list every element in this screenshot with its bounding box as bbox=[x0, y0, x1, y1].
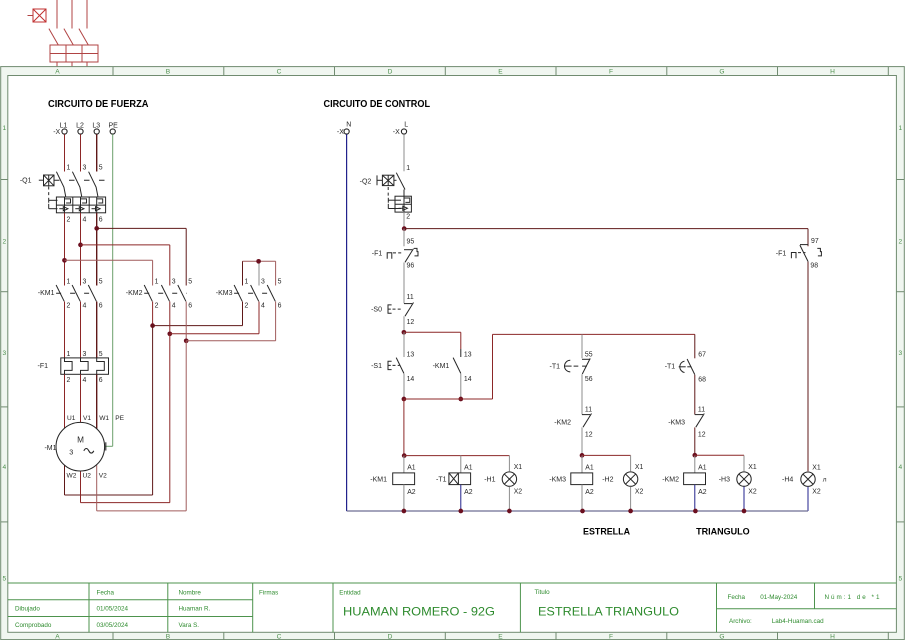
interlock contact KM2 11-12 bbox=[554, 407, 592, 439]
node KM2-KM3 link3 bbox=[184, 338, 189, 343]
svg-text:-S1: -S1 bbox=[371, 363, 382, 370]
svg-text:11: 11 bbox=[407, 294, 414, 301]
svg-text:3: 3 bbox=[83, 165, 87, 172]
node L3 branch bbox=[94, 226, 99, 231]
svg-text:-KM2: -KM2 bbox=[554, 420, 571, 427]
svg-text:C: C bbox=[277, 633, 282, 640]
svg-text:5: 5 bbox=[2, 575, 6, 582]
svg-text:2: 2 bbox=[2, 238, 6, 245]
node KM2-KM3 link2 bbox=[167, 331, 172, 336]
svg-text:-KM3: -KM3 bbox=[549, 477, 566, 484]
node N KM2 bbox=[693, 509, 698, 514]
wire node B to coils bbox=[403, 399, 405, 456]
node N H2 bbox=[628, 509, 633, 514]
node S1 14 bbox=[402, 397, 407, 402]
wire branch to KM2 pole5 bbox=[97, 227, 187, 229]
wire F1 to motor W1 bbox=[96, 374, 98, 431]
timed contact T1 67-68 bbox=[665, 352, 706, 384]
svg-text:95: 95 bbox=[407, 238, 415, 245]
svg-text:97: 97 bbox=[811, 238, 819, 245]
wire PE drop bbox=[112, 134, 114, 446]
svg-text:-KM1: -KM1 bbox=[433, 363, 450, 370]
wire Q1 to KM1 pole3 bbox=[96, 213, 98, 286]
wire rail B corner to T1 67 bbox=[694, 334, 696, 358]
wire F1 to motor V1 bbox=[80, 374, 82, 422]
svg-text:U1: U1 bbox=[67, 415, 76, 422]
wire S1 14 down bbox=[403, 374, 405, 399]
svg-text:-KM3: -KM3 bbox=[216, 290, 233, 297]
svg-text:6: 6 bbox=[99, 303, 103, 310]
svg-text:V1: V1 bbox=[83, 415, 91, 422]
wire rail A to KM1 aux bbox=[404, 331, 461, 333]
node L2 branch bbox=[78, 243, 83, 248]
wire rail B bbox=[493, 333, 695, 335]
svg-text:3: 3 bbox=[69, 448, 73, 457]
svg-text:-T1: -T1 bbox=[665, 364, 676, 371]
svg-text:D: D bbox=[388, 68, 393, 75]
PE motor connection bbox=[105, 445, 113, 447]
svg-text:E: E bbox=[498, 633, 503, 640]
svg-text:Titulo: Titulo bbox=[535, 589, 551, 596]
svg-text:14: 14 bbox=[464, 376, 472, 383]
node N KM1 bbox=[402, 509, 407, 514]
svg-text:2: 2 bbox=[245, 303, 249, 310]
lamp H4 bbox=[782, 464, 827, 511]
svg-text:Comprobado: Comprobado bbox=[15, 622, 52, 629]
svg-text:Firmas: Firmas bbox=[259, 590, 278, 597]
wire motor V2 loop bbox=[185, 341, 187, 511]
svg-text:ESTRELLA: ESTRELLA bbox=[583, 525, 630, 536]
thermal relay F1 bbox=[38, 351, 109, 384]
svg-text:Huaman R.: Huaman R. bbox=[179, 605, 211, 612]
svg-text:5: 5 bbox=[99, 351, 103, 358]
wire KM1 to F1 pole3 bbox=[96, 302, 98, 358]
svg-text:F: F bbox=[609, 633, 613, 640]
svg-text:A1: A1 bbox=[585, 464, 594, 471]
wire N drop bbox=[346, 134, 348, 511]
svg-text:Nombre: Nombre bbox=[179, 590, 202, 597]
svg-text:6: 6 bbox=[188, 303, 192, 310]
svg-text:D: D bbox=[388, 633, 393, 640]
svg-text:14: 14 bbox=[407, 376, 415, 383]
svg-text:1: 1 bbox=[67, 351, 71, 358]
motor M1 bbox=[44, 415, 124, 480]
svg-text:12: 12 bbox=[698, 432, 706, 439]
coil KM1 bbox=[370, 456, 416, 511]
svg-text:W1: W1 bbox=[99, 415, 109, 422]
svg-text:X1: X1 bbox=[514, 464, 523, 471]
svg-text:-H1: -H1 bbox=[484, 477, 495, 484]
svg-text:Dibujado: Dibujado bbox=[15, 605, 40, 612]
wire node B riser bbox=[492, 334, 494, 399]
node N H3 bbox=[742, 509, 747, 514]
svg-text:X1: X1 bbox=[748, 464, 757, 471]
lamp H2 bbox=[602, 455, 643, 511]
svg-text:3: 3 bbox=[898, 350, 902, 357]
svg-text:A: A bbox=[55, 68, 60, 75]
wire top feed rail bbox=[404, 228, 808, 230]
svg-text:B: B bbox=[166, 633, 171, 640]
svg-text:5: 5 bbox=[278, 278, 282, 285]
relay contact F1 95-96 bbox=[372, 229, 418, 270]
svg-text:L2: L2 bbox=[76, 122, 84, 129]
svg-text:6: 6 bbox=[99, 216, 103, 223]
svg-text:A2: A2 bbox=[464, 489, 473, 496]
svg-text:2: 2 bbox=[67, 216, 71, 223]
relay contact F1 97-98 bbox=[776, 238, 822, 269]
contactor -KM2 bbox=[126, 278, 192, 309]
wire link2 to KM3 pole4 bbox=[170, 333, 259, 335]
svg-text:1: 1 bbox=[67, 165, 71, 172]
svg-text:X2: X2 bbox=[812, 489, 821, 496]
wire 68 to KM3 11 bbox=[694, 375, 696, 415]
svg-text:PE: PE bbox=[115, 415, 124, 422]
svg-text:CIRCUITO DE FUERZA: CIRCUITO DE FUERZA bbox=[48, 99, 149, 110]
svg-text:L: L bbox=[404, 121, 408, 128]
wire KM1 to F1 pole2 bbox=[80, 302, 82, 358]
svg-text:A1: A1 bbox=[698, 464, 707, 471]
wire Q2 down bbox=[403, 212, 405, 227]
node coil rail 3 bbox=[692, 453, 697, 458]
svg-text:4: 4 bbox=[83, 377, 87, 384]
wire L drop bbox=[403, 134, 405, 171]
wire right drop to F1 97 bbox=[807, 229, 809, 247]
svg-text:C: C bbox=[277, 68, 282, 75]
svg-text:Fecha: Fecha bbox=[728, 594, 746, 601]
node N KM3 bbox=[580, 509, 585, 514]
svg-text:CIRCUITO DE CONTROL: CIRCUITO DE CONTROL bbox=[324, 99, 431, 110]
svg-text:3: 3 bbox=[172, 278, 176, 285]
ghost breaker artifact bbox=[28, 0, 99, 66]
svg-text:A2: A2 bbox=[407, 489, 416, 496]
svg-text:4: 4 bbox=[83, 216, 87, 223]
svg-text:A2: A2 bbox=[698, 489, 707, 496]
svg-text:X2: X2 bbox=[635, 488, 644, 495]
svg-text:Archivo:: Archivo: bbox=[729, 618, 752, 625]
wire link1 to KM3 pole2 bbox=[153, 325, 243, 327]
svg-text:96: 96 bbox=[407, 262, 415, 269]
wire L3 drop bbox=[96, 134, 98, 171]
svg-text:12: 12 bbox=[407, 319, 415, 326]
svg-text:03/05/2024: 03/05/2024 bbox=[97, 622, 129, 629]
svg-text:-S0: -S0 bbox=[371, 307, 382, 314]
svg-text:F: F bbox=[609, 68, 613, 75]
svg-text:13: 13 bbox=[464, 352, 472, 359]
svg-text:A: A bbox=[55, 633, 60, 640]
lamp H3 bbox=[719, 455, 757, 511]
coil KM2 bbox=[662, 456, 706, 511]
breaker Q1 bbox=[20, 165, 108, 224]
svg-text:3: 3 bbox=[261, 278, 265, 285]
svg-text:-M1: -M1 bbox=[44, 445, 56, 452]
svg-text:-T1: -T1 bbox=[436, 477, 447, 484]
wire node B rail bbox=[404, 398, 493, 400]
svg-text:2: 2 bbox=[898, 238, 902, 245]
svg-text:Núm:1 de *1: Núm:1 de *1 bbox=[825, 594, 880, 601]
breaker Q2 bbox=[360, 173, 412, 221]
node N H1 bbox=[507, 509, 512, 514]
svg-text:3: 3 bbox=[83, 351, 87, 358]
svg-text:4: 4 bbox=[261, 303, 265, 310]
wire branch to KM2 pole1 bbox=[65, 259, 153, 261]
svg-text:A1: A1 bbox=[407, 464, 416, 471]
svg-text:л: л bbox=[823, 477, 827, 484]
svg-text:-KM2: -KM2 bbox=[126, 290, 143, 297]
wire Q1 to KM1 pole2 bbox=[80, 213, 82, 286]
svg-text:X1: X1 bbox=[812, 464, 821, 471]
wire 98 to H4 bbox=[807, 262, 809, 472]
svg-text:X2: X2 bbox=[748, 488, 757, 495]
node control feed bbox=[402, 226, 407, 231]
pushbutton S1 13-14 bbox=[371, 332, 414, 383]
wire KM2 12 down bbox=[581, 427, 583, 455]
svg-text:HUAMAN ROMERO - 92G: HUAMAN ROMERO - 92G bbox=[343, 604, 495, 618]
wire F1 to motor U1 bbox=[64, 374, 66, 429]
svg-text:12: 12 bbox=[585, 432, 593, 439]
svg-text:L3: L3 bbox=[92, 122, 100, 129]
svg-text:3: 3 bbox=[83, 278, 87, 285]
svg-text:4: 4 bbox=[2, 464, 6, 471]
svg-text:M: M bbox=[77, 435, 84, 444]
svg-text:N: N bbox=[346, 121, 351, 128]
svg-text:X1: X1 bbox=[635, 464, 644, 471]
svg-text:H: H bbox=[830, 68, 835, 75]
coil KM3 bbox=[549, 456, 594, 511]
svg-text:98: 98 bbox=[810, 262, 818, 269]
svg-text:Lab4-Huaman.cad: Lab4-Huaman.cad bbox=[772, 618, 824, 625]
svg-text:W2: W2 bbox=[67, 473, 77, 480]
wire L1 drop bbox=[64, 134, 66, 171]
wire motor U2 loop bbox=[169, 334, 171, 503]
svg-text:A2: A2 bbox=[585, 489, 594, 496]
svg-text:Vara S.: Vara S. bbox=[179, 622, 200, 629]
svg-text:11: 11 bbox=[698, 407, 705, 414]
wire KM3 star bracket bbox=[243, 260, 276, 262]
node KM2-KM3 link1 bbox=[150, 323, 155, 328]
svg-text:5: 5 bbox=[898, 575, 902, 582]
svg-text:G: G bbox=[719, 633, 724, 640]
svg-text:1: 1 bbox=[2, 125, 6, 132]
svg-text:-F1: -F1 bbox=[776, 250, 787, 257]
wire KM2 pole1 down bbox=[152, 302, 154, 326]
svg-text:-X: -X bbox=[393, 129, 400, 136]
wire coil rail 3 bbox=[695, 454, 744, 456]
svg-text:55: 55 bbox=[585, 352, 593, 359]
wire KM2 pole3 down bbox=[185, 302, 187, 341]
node A after S0 bbox=[402, 330, 407, 335]
svg-text:X2: X2 bbox=[514, 488, 523, 495]
svg-text:-Q1: -Q1 bbox=[20, 178, 32, 185]
svg-text:5: 5 bbox=[99, 278, 103, 285]
svg-text:V2: V2 bbox=[99, 473, 107, 480]
node coil rail 1 bbox=[402, 453, 407, 458]
wire 12 to node A bbox=[403, 316, 405, 331]
svg-text:01-May-2024: 01-May-2024 bbox=[760, 594, 798, 601]
svg-text:2: 2 bbox=[406, 213, 410, 220]
svg-text:11: 11 bbox=[585, 407, 592, 414]
node star point bbox=[256, 259, 261, 264]
wire neutral rail bbox=[347, 510, 808, 512]
svg-text:6: 6 bbox=[99, 377, 103, 384]
wire link3 to KM3 pole6 bbox=[186, 340, 275, 342]
svg-text:13: 13 bbox=[407, 352, 415, 359]
svg-text:-F1: -F1 bbox=[372, 250, 383, 257]
node L1 branch bbox=[62, 258, 67, 263]
node N T1 bbox=[458, 509, 463, 514]
svg-text:G: G bbox=[719, 68, 724, 75]
wire Q1 to KM1 pole1 bbox=[64, 213, 66, 286]
svg-text:68: 68 bbox=[698, 377, 706, 384]
timed contact T1 55-56 bbox=[550, 352, 593, 383]
svg-text:-H4: -H4 bbox=[782, 477, 793, 484]
contactor -KM1 bbox=[38, 278, 103, 309]
svg-text:67: 67 bbox=[698, 352, 706, 359]
node KM1 14 bbox=[458, 397, 463, 402]
svg-text:4: 4 bbox=[172, 303, 176, 310]
svg-text:-Q2: -Q2 bbox=[360, 179, 372, 186]
svg-text:1: 1 bbox=[155, 278, 159, 285]
svg-text:TRIANGULO: TRIANGULO bbox=[696, 525, 750, 536]
wire 96 to S0 bbox=[403, 263, 405, 304]
svg-text:-KM3: -KM3 bbox=[668, 420, 685, 427]
svg-text:-KM2: -KM2 bbox=[662, 477, 679, 484]
svg-text:-X: -X bbox=[53, 129, 60, 136]
svg-text:-X: -X bbox=[337, 129, 344, 136]
svg-text:Fecha: Fecha bbox=[97, 590, 115, 597]
timer coil T1 bbox=[436, 456, 473, 511]
svg-text:H: H bbox=[830, 633, 835, 640]
svg-text:2: 2 bbox=[155, 303, 159, 310]
lamp H1 bbox=[484, 455, 522, 511]
svg-text:1: 1 bbox=[406, 165, 410, 172]
svg-text:A1: A1 bbox=[464, 464, 473, 471]
wire coil rail 2 bbox=[582, 454, 631, 456]
svg-text:6: 6 bbox=[278, 303, 282, 310]
svg-text:1: 1 bbox=[245, 278, 249, 285]
svg-text:-F1: -F1 bbox=[38, 363, 49, 370]
wire coil rail 1 bbox=[404, 455, 509, 457]
svg-text:2: 2 bbox=[67, 377, 71, 384]
svg-text:PE: PE bbox=[109, 122, 119, 129]
aux contact KM1 13-14 bbox=[433, 349, 472, 399]
svg-text:L1: L1 bbox=[60, 122, 68, 129]
svg-text:5: 5 bbox=[188, 278, 192, 285]
wire branch to KM2 pole3 bbox=[81, 244, 170, 246]
contactor -KM3 bbox=[216, 278, 282, 309]
wire KM2 pole2 down bbox=[169, 302, 171, 334]
wire 56 to KM2 11 bbox=[581, 374, 583, 414]
svg-text:-H3: -H3 bbox=[719, 477, 730, 484]
wire KM3 12 down bbox=[694, 427, 696, 455]
svg-text:U2: U2 bbox=[83, 473, 92, 480]
svg-text:-T1: -T1 bbox=[550, 364, 561, 371]
svg-text:E: E bbox=[498, 68, 503, 75]
svg-text:1: 1 bbox=[898, 125, 902, 132]
svg-text:-KM1: -KM1 bbox=[370, 477, 387, 484]
wire L2 drop bbox=[80, 134, 82, 171]
pushbutton S0 11-12 bbox=[371, 294, 414, 326]
node coil rail 2 bbox=[580, 453, 585, 458]
svg-text:B: B bbox=[166, 68, 171, 75]
svg-text:-H2: -H2 bbox=[602, 477, 613, 484]
svg-text:01/05/2024: 01/05/2024 bbox=[97, 605, 129, 612]
svg-text:-KM1: -KM1 bbox=[38, 290, 55, 297]
svg-text:3: 3 bbox=[2, 350, 6, 357]
svg-text:56: 56 bbox=[585, 376, 593, 383]
wire rail B tap to T1 55 bbox=[581, 334, 583, 358]
svg-text:4: 4 bbox=[83, 303, 87, 310]
svg-text:2: 2 bbox=[67, 303, 71, 310]
title block bbox=[8, 583, 897, 632]
svg-text:Entidad: Entidad bbox=[339, 590, 361, 597]
svg-text:1: 1 bbox=[67, 278, 71, 285]
wire motor W2 loop bbox=[152, 326, 154, 495]
svg-text:5: 5 bbox=[99, 165, 103, 172]
svg-text:ESTRELLA TRIANGULO: ESTRELLA TRIANGULO bbox=[538, 604, 679, 618]
wire KM1 to F1 pole1 bbox=[64, 302, 66, 358]
interlock contact KM3 11-12 bbox=[668, 407, 705, 439]
svg-text:4: 4 bbox=[898, 464, 902, 471]
